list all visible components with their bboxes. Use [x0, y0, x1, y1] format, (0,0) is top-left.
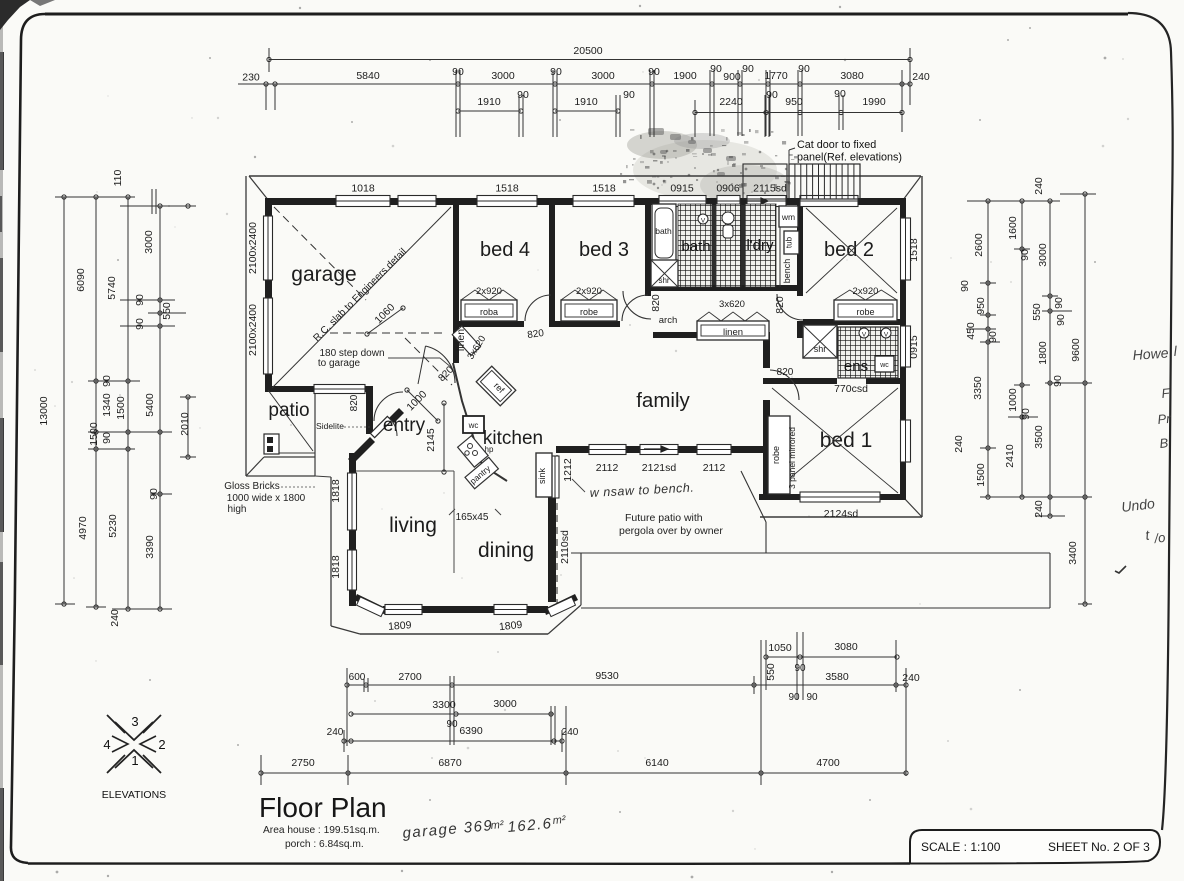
svg-text:m²: m²: [490, 819, 504, 832]
svg-text:90: 90: [1019, 249, 1031, 261]
svg-text:2410: 2410: [1004, 444, 1016, 468]
svg-text:1500: 1500: [115, 396, 127, 420]
svg-text:550: 550: [1031, 303, 1043, 321]
svg-text:13000: 13000: [38, 396, 50, 425]
svg-text:820: 820: [349, 394, 360, 411]
svg-text:family: family: [636, 389, 690, 412]
svg-text:3x620: 3x620: [719, 299, 745, 310]
svg-text:90: 90: [766, 89, 778, 101]
svg-text:Gloss Bricks: Gloss Bricks: [224, 481, 280, 492]
svg-text:V: V: [862, 332, 867, 339]
svg-text:90: 90: [834, 88, 846, 100]
svg-text:2110sd: 2110sd: [559, 530, 571, 564]
svg-text:900: 900: [723, 71, 741, 83]
svg-text:SCALE : 1:100: SCALE : 1:100: [921, 840, 1001, 854]
svg-text:3000: 3000: [1037, 243, 1049, 267]
svg-text:1910: 1910: [477, 96, 501, 108]
svg-text:5400: 5400: [144, 393, 156, 417]
svg-text:165x45: 165x45: [456, 512, 489, 523]
svg-text:2121sd: 2121sd: [642, 462, 677, 474]
svg-text:0915: 0915: [908, 335, 920, 359]
svg-text:1000 wide x 1800: 1000 wide x 1800: [227, 493, 306, 504]
svg-text:240: 240: [953, 435, 965, 453]
svg-text:entry: entry: [383, 415, 426, 436]
svg-text:arch: arch: [659, 315, 677, 326]
svg-text:2700: 2700: [398, 671, 422, 683]
svg-text:1910: 1910: [574, 96, 598, 108]
svg-text:shr: shr: [814, 344, 827, 354]
svg-text:230: 230: [242, 72, 260, 84]
svg-text:90: 90: [1052, 375, 1064, 387]
svg-text:kitchen: kitchen: [483, 428, 543, 449]
svg-text:240: 240: [562, 727, 579, 738]
svg-text:240: 240: [109, 609, 121, 627]
svg-text:0915: 0915: [670, 183, 694, 195]
svg-text:1340: 1340: [101, 393, 113, 417]
svg-text:820: 820: [777, 367, 794, 378]
svg-text:to garage: to garage: [318, 358, 361, 369]
svg-text:1500: 1500: [88, 422, 100, 446]
svg-text:450: 450: [965, 322, 977, 340]
svg-text:90: 90: [550, 66, 562, 78]
svg-text:2115sd: 2115sd: [753, 183, 787, 195]
svg-text:6870: 6870: [438, 757, 462, 769]
svg-text:1018: 1018: [351, 183, 375, 195]
svg-text:90: 90: [134, 294, 146, 306]
svg-text:tub: tub: [785, 236, 794, 248]
svg-text:4970: 4970: [77, 516, 89, 540]
svg-text:2100x2400: 2100x2400: [247, 304, 259, 356]
svg-text:2600: 2600: [973, 233, 985, 257]
svg-text:90: 90: [446, 719, 458, 730]
svg-text:shr: shr: [658, 276, 669, 285]
svg-text:90: 90: [742, 63, 754, 75]
svg-text:2100x2400: 2100x2400: [247, 222, 259, 274]
svg-text:Area house : 199.51sq.m.: Area house : 199.51sq.m.: [263, 825, 380, 836]
svg-text:1: 1: [131, 753, 138, 768]
svg-text:3350: 3350: [972, 376, 984, 400]
svg-text:robe: robe: [580, 307, 598, 317]
svg-text:90: 90: [1055, 314, 1067, 326]
svg-text:3300: 3300: [432, 699, 456, 711]
svg-text:770csd: 770csd: [834, 383, 868, 395]
svg-text:1990: 1990: [862, 96, 886, 108]
svg-text:2750: 2750: [291, 757, 315, 769]
svg-text:110: 110: [112, 169, 124, 186]
svg-text:2010: 2010: [179, 412, 191, 436]
svg-text:5230: 5230: [107, 514, 119, 538]
svg-text:pergola over by owner: pergola over by owner: [619, 525, 723, 537]
svg-text:240: 240: [327, 727, 344, 738]
svg-text:600: 600: [349, 672, 366, 683]
svg-text:1518: 1518: [495, 183, 519, 195]
svg-text:Cat door to fixed: Cat door to fixed: [797, 139, 876, 151]
svg-text:panel(Ref. elevations): panel(Ref. elevations): [797, 152, 902, 164]
svg-text:3580: 3580: [825, 671, 849, 683]
svg-text:550: 550: [765, 663, 777, 681]
svg-text:90: 90: [134, 318, 146, 330]
svg-text:robe: robe: [771, 446, 781, 464]
svg-text:bath: bath: [681, 238, 710, 255]
svg-text:90: 90: [987, 331, 999, 343]
svg-text:V: V: [701, 218, 706, 225]
svg-text:2: 2: [158, 737, 165, 752]
svg-text:3400: 3400: [1067, 541, 1079, 565]
svg-text:1212: 1212: [562, 458, 574, 482]
svg-text:3500: 3500: [1033, 425, 1045, 449]
svg-text:6390: 6390: [459, 725, 483, 737]
svg-text:9600: 9600: [1070, 338, 1082, 362]
svg-text:950: 950: [785, 96, 803, 108]
svg-text:1900: 1900: [673, 70, 697, 82]
svg-text:bed 1: bed 1: [820, 429, 873, 452]
svg-text:garage: garage: [291, 263, 356, 286]
svg-text:3 panel mirrored: 3 panel mirrored: [787, 427, 797, 489]
svg-text:90: 90: [452, 66, 464, 78]
svg-text:m²: m²: [552, 814, 566, 827]
svg-text:bath: bath: [655, 226, 672, 236]
svg-text:3000: 3000: [591, 70, 615, 82]
svg-text:90: 90: [788, 692, 800, 703]
svg-text:240: 240: [1033, 177, 1045, 195]
svg-text:bed 3: bed 3: [579, 239, 629, 261]
svg-text:1818: 1818: [330, 479, 342, 503]
svg-text:1818: 1818: [330, 555, 342, 579]
svg-text:3000: 3000: [493, 698, 517, 710]
svg-text:90: 90: [1020, 408, 1032, 420]
svg-text:sink: sink: [537, 468, 547, 485]
svg-text:1809: 1809: [498, 619, 523, 633]
svg-text:90: 90: [794, 663, 806, 674]
svg-text:3080: 3080: [834, 641, 858, 653]
svg-text:950: 950: [975, 297, 987, 315]
svg-text:bed 4: bed 4: [480, 239, 530, 261]
svg-text:1600: 1600: [1007, 216, 1019, 240]
svg-text:9530: 9530: [595, 670, 619, 682]
svg-text:1809: 1809: [388, 619, 412, 633]
svg-text:820: 820: [774, 296, 786, 314]
svg-text:robe: robe: [856, 307, 874, 317]
svg-text:Howe: Howe: [1132, 345, 1169, 363]
svg-text:wc: wc: [468, 421, 479, 430]
svg-text:2x920: 2x920: [576, 286, 602, 297]
svg-text:V: V: [884, 332, 889, 339]
svg-text:dining: dining: [478, 539, 534, 562]
svg-text:wc: wc: [879, 362, 889, 369]
svg-text:2145: 2145: [425, 428, 437, 452]
svg-text:0906: 0906: [716, 183, 740, 195]
svg-text:550: 550: [161, 302, 173, 320]
svg-text:2x920: 2x920: [476, 286, 502, 297]
svg-text:2124sd: 2124sd: [824, 508, 859, 520]
svg-text:3: 3: [131, 714, 138, 729]
svg-text:90: 90: [648, 66, 660, 78]
svg-text:90: 90: [959, 280, 971, 292]
svg-text:ens: ens: [844, 358, 868, 375]
svg-text:90: 90: [148, 488, 160, 500]
svg-text:wm: wm: [781, 212, 795, 222]
svg-text:3080: 3080: [840, 70, 864, 82]
svg-text:820: 820: [650, 294, 662, 312]
svg-text:20500: 20500: [573, 45, 602, 57]
svg-text:linen: linen: [455, 329, 467, 351]
svg-text:l'dry: l'dry: [746, 237, 774, 254]
svg-text:6140: 6140: [645, 757, 669, 769]
svg-text:240: 240: [912, 71, 930, 83]
svg-text:1500: 1500: [975, 463, 987, 487]
svg-text:ELEVATIONS: ELEVATIONS: [102, 789, 166, 801]
svg-text:1050: 1050: [768, 642, 792, 654]
svg-text:6090: 6090: [75, 268, 87, 292]
svg-text:90: 90: [710, 63, 722, 75]
svg-text:90: 90: [623, 89, 635, 101]
svg-text:Pr: Pr: [1157, 411, 1172, 427]
svg-text:porch : 6.84sq.m.: porch : 6.84sq.m.: [285, 839, 364, 850]
svg-text:4700: 4700: [816, 757, 840, 769]
svg-text:2112: 2112: [703, 462, 726, 474]
svg-text:roba: roba: [480, 307, 498, 317]
svg-text:SHEET No. 2 OF 3: SHEET No. 2 OF 3: [1048, 840, 1150, 854]
svg-text:high: high: [228, 504, 247, 515]
svg-text:living: living: [389, 514, 437, 537]
svg-text:1518: 1518: [592, 183, 616, 195]
svg-text:/o: /o: [1153, 530, 1167, 546]
svg-text:Sidelite: Sidelite: [316, 421, 344, 431]
svg-text:4: 4: [103, 737, 110, 752]
svg-text:1518: 1518: [908, 238, 920, 262]
svg-text:Floor Plan: Floor Plan: [259, 792, 387, 823]
svg-text:bed 2: bed 2: [824, 239, 874, 261]
svg-text:240: 240: [902, 672, 920, 684]
svg-text:2240: 2240: [719, 96, 743, 108]
svg-text:5740: 5740: [106, 276, 118, 300]
svg-text:2x920: 2x920: [853, 286, 879, 297]
svg-text:1000: 1000: [1007, 388, 1019, 412]
svg-text:2112: 2112: [596, 462, 619, 474]
svg-text:3390: 3390: [144, 535, 156, 559]
svg-text:90: 90: [101, 432, 113, 444]
svg-text:240: 240: [1033, 500, 1045, 518]
svg-text:1770: 1770: [764, 70, 788, 82]
svg-text:Future patio with: Future patio with: [625, 512, 703, 524]
svg-text:90: 90: [798, 63, 810, 75]
svg-text:5840: 5840: [356, 70, 380, 82]
svg-text:90: 90: [101, 375, 113, 387]
svg-text:bench: bench: [782, 259, 792, 284]
svg-text:3000: 3000: [491, 70, 515, 82]
svg-text:linen: linen: [723, 327, 743, 338]
svg-text:patio: patio: [268, 400, 309, 421]
svg-text:90: 90: [1053, 297, 1065, 309]
svg-text:1800: 1800: [1037, 341, 1049, 365]
svg-text:3000: 3000: [143, 230, 155, 254]
svg-text:90: 90: [806, 692, 818, 703]
